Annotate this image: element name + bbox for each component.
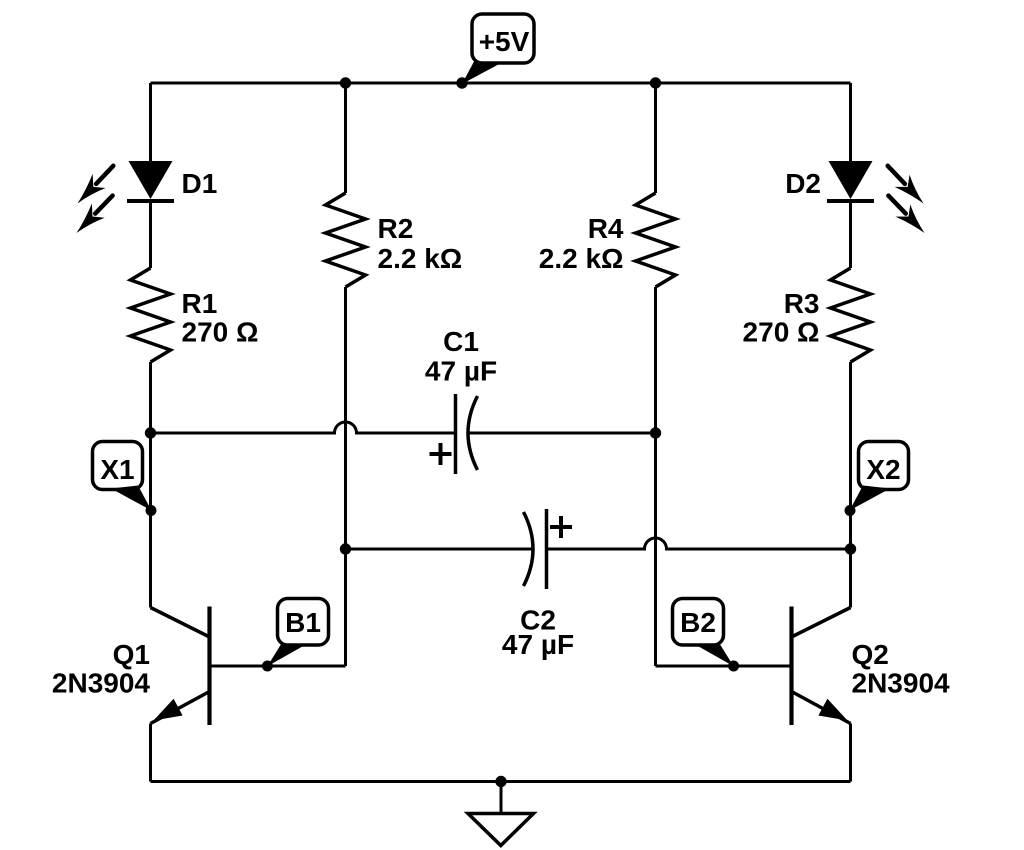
power label +5V (462, 14, 534, 84)
wire C2 right with hop over R4 column (547, 538, 851, 549)
label D1 (182, 168, 218, 199)
label R3 270 Ω (743, 288, 820, 348)
label Q1 2N3904 (52, 639, 151, 699)
label C2 47 µF (502, 605, 574, 661)
svg-text:D1: D1 (182, 168, 218, 199)
junction dot C1 right (650, 427, 661, 438)
junction dot C2 right / Q2 collector node (845, 543, 856, 554)
probe node B1 (262, 599, 329, 672)
transistor Q1 (151, 607, 210, 726)
wire C2 left plate to R2 column (346, 548, 533, 551)
svg-text:47 µF: 47 µF (502, 629, 574, 660)
ground (468, 814, 534, 846)
capacitor C1 (430, 394, 478, 474)
wire R2 bottom to Q1 base column (344, 287, 347, 666)
label R4 2.2 kΩ (539, 213, 624, 274)
wire C1 right plate to R4 column (469, 432, 656, 435)
wire rail to D2 anode (849, 83, 852, 162)
wire Q1 emitter to bottom rail (149, 724, 152, 782)
resistor R1 (131, 268, 171, 362)
label R1 270 Ω (182, 288, 259, 348)
svg-text:Q1: Q1 (113, 639, 150, 670)
label R2 2.2 kΩ (378, 213, 463, 274)
junction dot C2 left (340, 543, 351, 554)
capacitor C2 (524, 509, 573, 589)
svg-text:R4: R4 (588, 213, 624, 244)
probe node B2 (673, 599, 740, 672)
wire R3 to Q2 collector (849, 362, 852, 608)
svg-text:+5V: +5V (479, 26, 530, 57)
resistor R4 (636, 193, 676, 287)
wire top +5V rail (151, 82, 851, 85)
label Q2 2N3904 (852, 639, 951, 699)
svg-text:2N3904: 2N3904 (52, 668, 151, 699)
wire Q1 base (210, 665, 346, 668)
resistor R3 (831, 268, 871, 362)
junction dot +5V tap (456, 77, 467, 88)
junction dot top of R2 column (340, 77, 351, 88)
svg-text:B2: B2 (680, 607, 716, 638)
probe node X1 (93, 442, 157, 517)
svg-text:R3: R3 (784, 288, 820, 319)
junction dot C1 left / Q1 collector node (145, 427, 156, 438)
junction dot top of R4 column (650, 77, 661, 88)
probe node X2 (845, 442, 909, 517)
wire C1 left with hop over R2 column (151, 422, 456, 433)
wire R4 bottom to Q2 base column (654, 287, 657, 666)
wire rail to D1 anode (149, 83, 152, 162)
svg-text:Q2: Q2 (852, 639, 889, 670)
svg-text:47 µF: 47 µF (425, 356, 497, 387)
svg-text:270 Ω: 270 Ω (182, 317, 259, 348)
svg-text:2.2 kΩ: 2.2 kΩ (539, 243, 624, 274)
wire D1 cathode to R1 (149, 199, 152, 268)
wire R1 to Q1 collector (149, 362, 152, 608)
wire bottom rail (151, 780, 851, 783)
wire R2 column top (344, 83, 347, 193)
svg-text:R1: R1 (182, 288, 218, 319)
LED D1 (70, 159, 174, 239)
svg-text:2.2 kΩ: 2.2 kΩ (378, 243, 463, 274)
wire R4 column top (654, 83, 657, 193)
svg-text:X1: X1 (100, 454, 134, 485)
svg-text:B1: B1 (285, 607, 321, 638)
svg-text:R2: R2 (378, 213, 414, 244)
wire Q2 emitter to bottom rail (849, 724, 852, 782)
wire Q2 base (656, 665, 792, 668)
svg-text:X2: X2 (866, 454, 900, 485)
wire D2 cathode to R3 (849, 199, 852, 268)
label D2 (785, 168, 821, 199)
resistor R2 (326, 193, 366, 287)
wire ground stub (500, 782, 503, 814)
svg-text:270 Ω: 270 Ω (743, 317, 820, 348)
svg-text:C1: C1 (443, 326, 479, 357)
svg-text:D2: D2 (785, 168, 821, 199)
svg-text:2N3904: 2N3904 (852, 668, 951, 699)
LED D2 (827, 159, 931, 239)
junction dot ground tap (495, 776, 506, 787)
label C1 47 µF (425, 326, 497, 387)
transistor Q2 (792, 607, 851, 726)
